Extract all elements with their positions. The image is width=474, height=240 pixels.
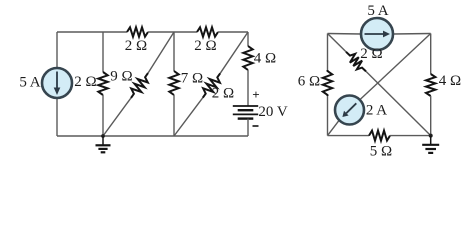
svg-text:2 Ω: 2 Ω <box>194 38 216 54</box>
svg-text:2 Ω: 2 Ω <box>125 38 147 54</box>
svg-text:2 Ω: 2 Ω <box>360 46 382 62</box>
svg-text:4 Ω: 4 Ω <box>254 50 276 66</box>
svg-text:5 A: 5 A <box>367 3 388 19</box>
svg-text:5 Ω: 5 Ω <box>370 143 392 159</box>
svg-text:9 Ω: 9 Ω <box>110 68 132 84</box>
svg-text:6 Ω: 6 Ω <box>298 73 320 89</box>
svg-text:2 Ω: 2 Ω <box>212 85 234 101</box>
svg-text:2 A: 2 A <box>366 102 387 118</box>
svg-text:4 Ω: 4 Ω <box>439 73 461 89</box>
svg-text:7 Ω: 7 Ω <box>181 70 203 86</box>
svg-text:20 V: 20 V <box>258 104 287 120</box>
svg-text:2 Ω: 2 Ω <box>74 74 96 90</box>
svg-text:5 A: 5 A <box>19 74 40 90</box>
svg-text:+: + <box>252 87 259 102</box>
